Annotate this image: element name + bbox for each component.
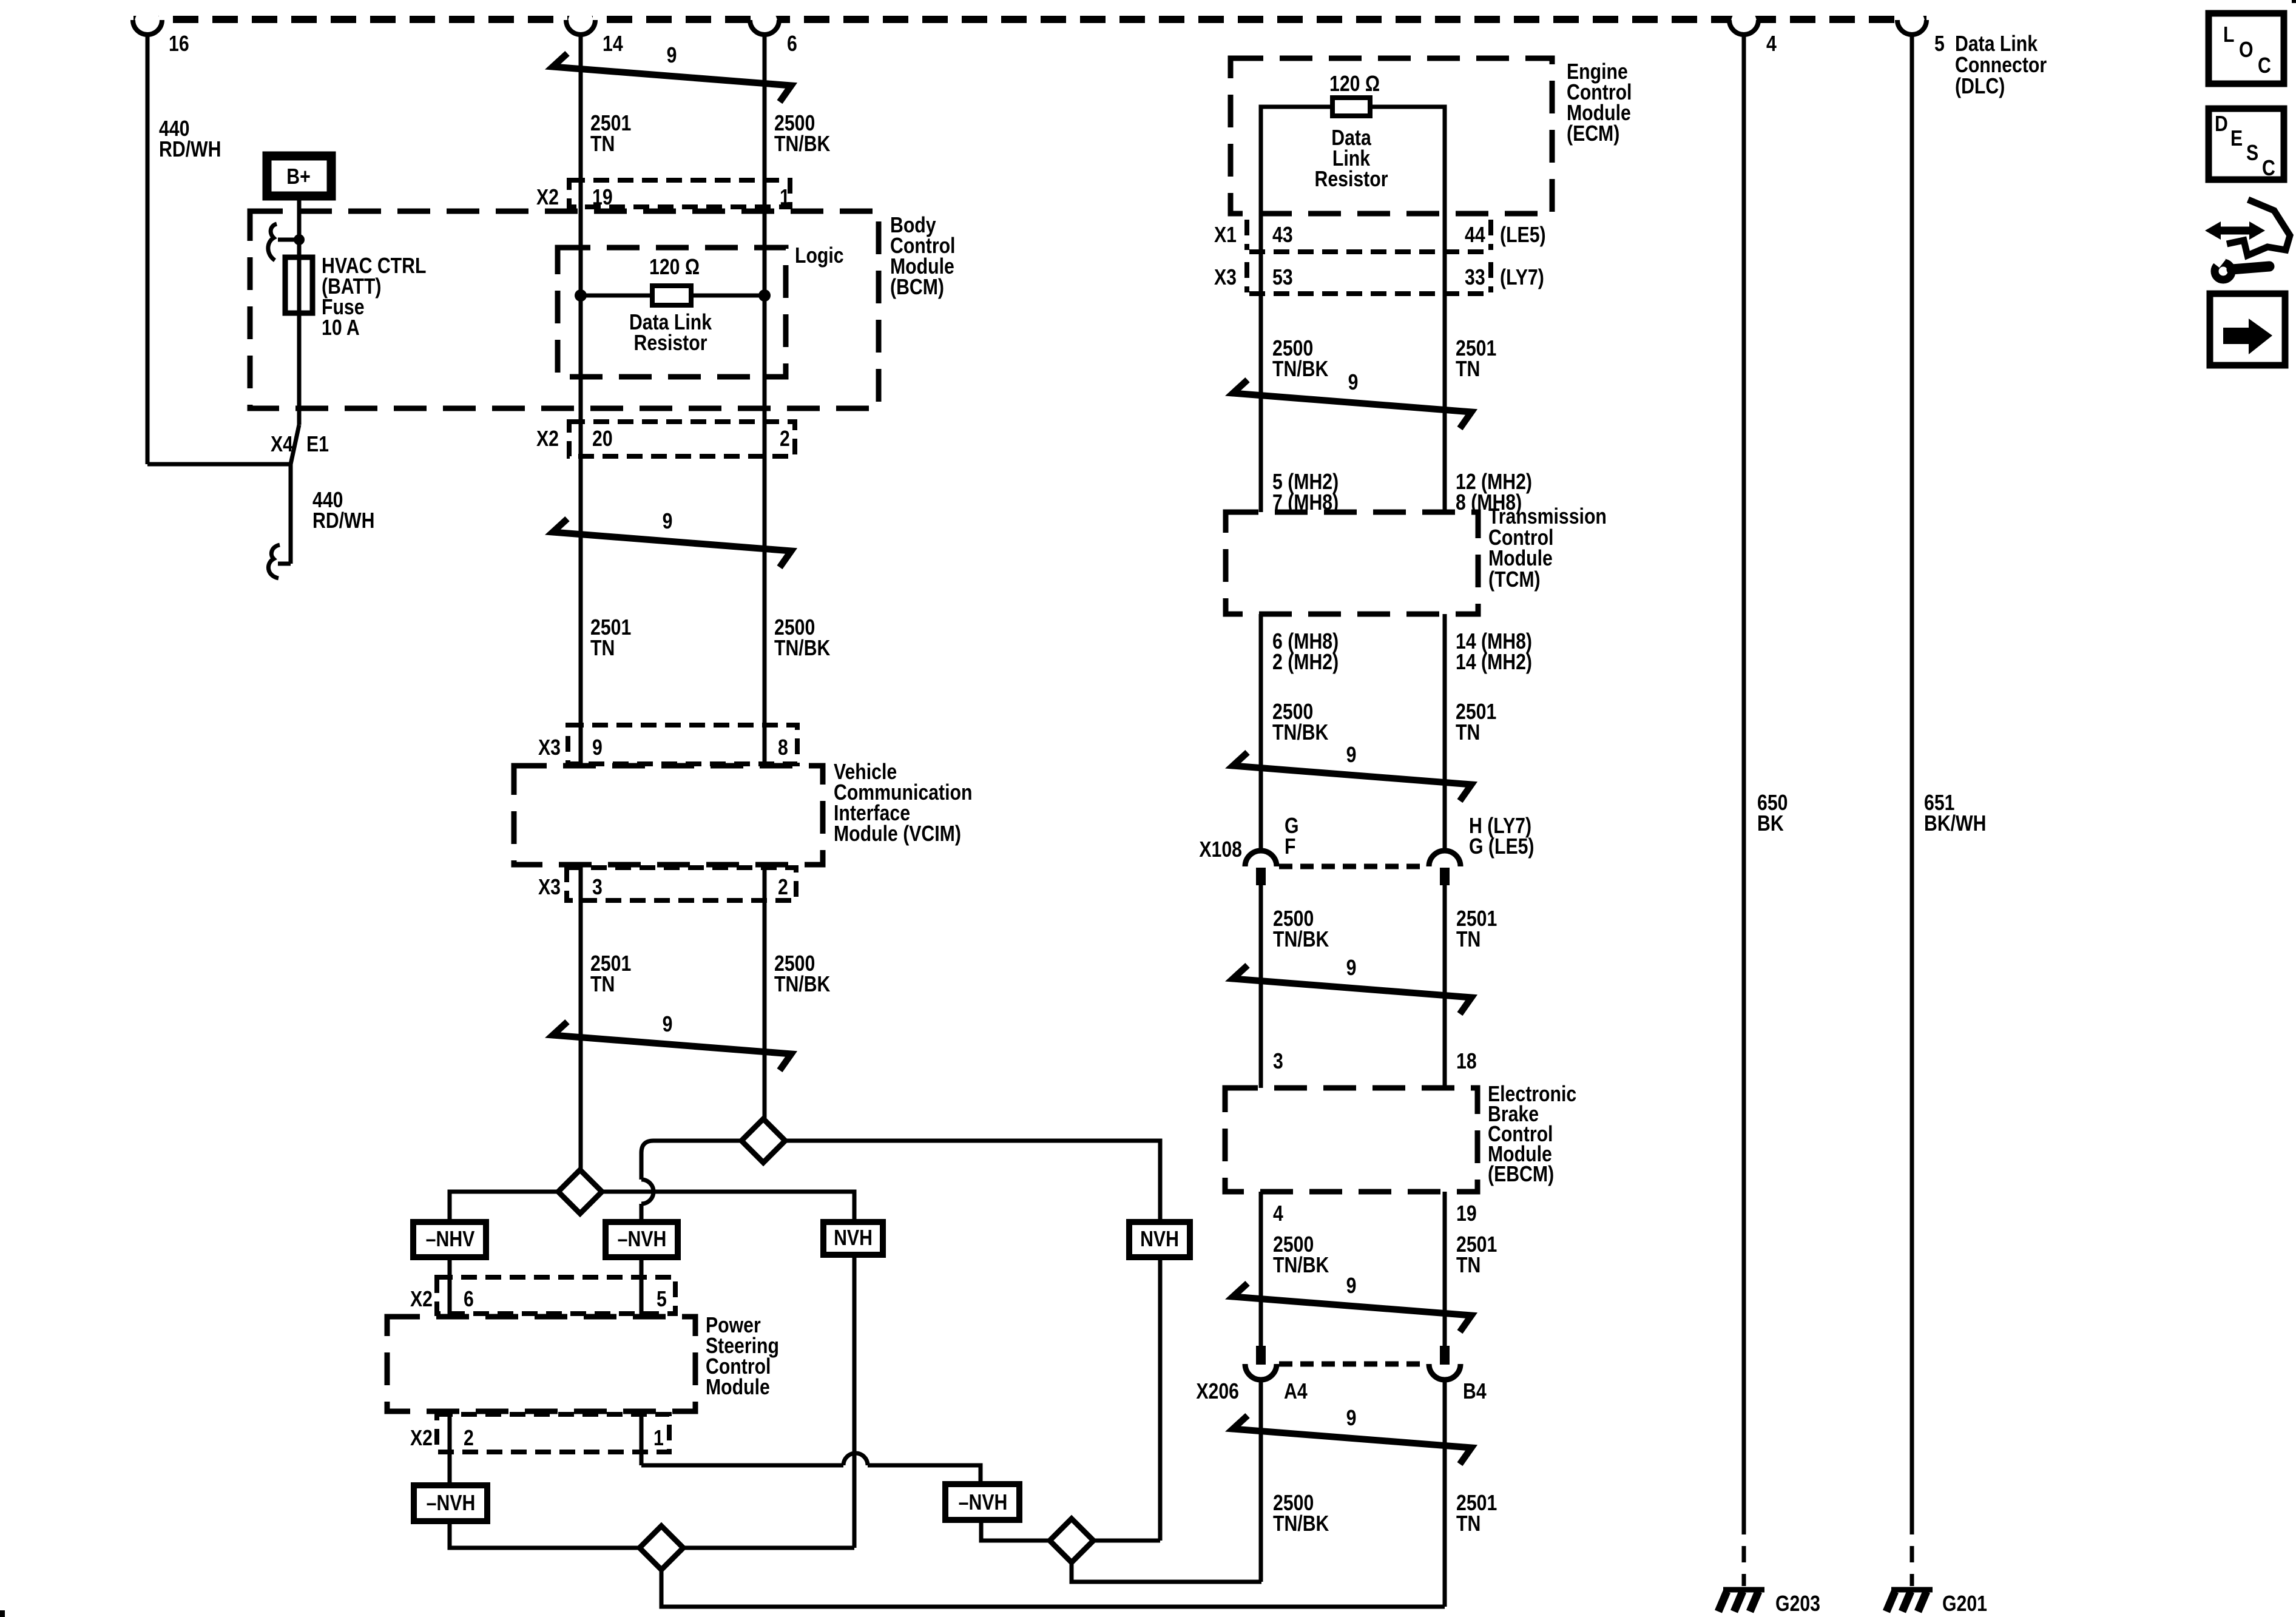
svg-text:TN: TN — [1456, 1254, 1481, 1278]
wire 2501 TN (X108 to EBCM) — [1443, 885, 1447, 1088]
svg-text:2: 2 — [464, 1426, 474, 1451]
svg-text:–NVH: –NVH — [959, 1491, 1008, 1515]
junction dot left (BCM resistor) — [575, 289, 587, 302]
svg-text:33: 33 — [1465, 266, 1485, 290]
wire 2501 TN from DLC pin 14 — [579, 32, 583, 766]
splice diamond (2500 bus) — [741, 1119, 785, 1163]
fuse clip stub — [278, 238, 295, 242]
cable slash 9 (X108 to EBCM) — [1233, 965, 1471, 1014]
junction dot at fuse input — [294, 234, 305, 245]
svg-text:53: 53 — [1272, 266, 1293, 290]
wire PSCM pin 1 down — [640, 1411, 644, 1465]
page mark top right — [2292, 0, 2296, 3]
terminator -NVH box (to PSCM 5) — [606, 1222, 678, 1257]
svg-text:C: C — [2262, 157, 2275, 181]
wire bottom splice to 2501 return — [661, 1570, 1445, 1607]
svg-text:F: F — [1285, 835, 1295, 859]
wire through fuse — [297, 257, 302, 313]
wire -NVH to PSCM pin 5 — [640, 1257, 644, 1317]
svg-text:16: 16 — [169, 32, 189, 56]
wire 2501 TN (X206 down) — [1443, 1380, 1447, 1607]
terminator -NHV box — [413, 1222, 486, 1257]
data link connector (DLC) dashed boundary — [133, 16, 1926, 23]
cable slash 9 (below X206) — [1233, 1416, 1471, 1464]
svg-text:44: 44 — [1465, 223, 1485, 248]
svg-text:E: E — [2230, 127, 2243, 151]
icon forward arrow box — [2210, 294, 2285, 365]
wire 2501 TN (ECM to TCM) — [1443, 214, 1447, 512]
icon double arrow — [2218, 227, 2252, 235]
wire splice arm right (bottom right splice) — [1093, 1539, 1160, 1543]
svg-text:L: L — [2223, 23, 2234, 47]
svg-text:(EBCM): (EBCM) — [1488, 1163, 1554, 1187]
DLC cavity cup pin 16 — [135, 9, 160, 35]
wire hop over horizontal — [641, 1180, 653, 1204]
svg-text:6: 6 — [787, 32, 797, 56]
power steering control module dashed box — [387, 1317, 695, 1411]
svg-text:3: 3 — [1273, 1050, 1283, 1074]
svg-text:NVH: NVH — [834, 1226, 873, 1251]
wire splice arm left (2500 splice) — [641, 1141, 741, 1180]
svg-text:A4: A4 — [1284, 1380, 1308, 1404]
icon LOC box — [2209, 13, 2284, 84]
battery B+ symbol — [267, 156, 331, 196]
svg-text:(LE5): (LE5) — [1500, 223, 1546, 248]
svg-text:TN: TN — [1456, 721, 1480, 745]
inline connector X206 pin left — [1256, 1346, 1266, 1365]
connector row X1/X3 side stubs — [1244, 220, 1249, 250]
svg-text:9: 9 — [1346, 1406, 1357, 1431]
wire 650 BK from DLC pin 4 — [1742, 32, 1746, 1518]
svg-text:TN: TN — [1456, 1512, 1481, 1536]
svg-text:–NVH: –NVH — [427, 1491, 476, 1516]
svg-text:X2: X2 — [536, 427, 559, 451]
svg-text:43: 43 — [1272, 223, 1293, 248]
svg-text:(BCM): (BCM) — [890, 275, 944, 300]
svg-text:TN: TN — [1456, 357, 1480, 382]
svg-text:(LY7): (LY7) — [1500, 266, 1544, 290]
svg-text:TN: TN — [1456, 928, 1481, 952]
svg-text:6: 6 — [464, 1288, 474, 1312]
fuse HVAC CTRL body — [285, 257, 312, 313]
svg-text:TN/BK: TN/BK — [774, 636, 830, 661]
svg-text:1: 1 — [780, 186, 790, 210]
vehicle communication interface module (VCIM) dashed box — [514, 766, 823, 865]
wire PSCM pin 2 to -NVH — [448, 1411, 452, 1485]
cable slash 9 (DLC to BCM) — [553, 53, 791, 102]
inline connector X108 cup right — [1429, 851, 1460, 866]
BCM logic dashed box — [558, 248, 786, 377]
wire splice arm right (2501 splice to NVH) — [602, 1192, 854, 1222]
terminator -NVH box (bottom right) — [945, 1484, 1019, 1520]
svg-text:E1: E1 — [306, 433, 329, 457]
inline connector X108 pin right — [1440, 868, 1450, 885]
data link resistor wire (ECM) — [1261, 107, 1445, 214]
svg-text:9: 9 — [592, 736, 603, 760]
connector row X3 3/2 dotted box — [567, 868, 796, 900]
svg-text:(DLC): (DLC) — [1955, 75, 2005, 99]
inline connector X108 cup left — [1245, 851, 1277, 866]
wire -NHV to PSCM pin 6 — [448, 1257, 452, 1317]
svg-text:5: 5 — [657, 1288, 667, 1312]
svg-text:X2: X2 — [410, 1426, 433, 1451]
svg-text:X1: X1 — [1214, 223, 1237, 248]
svg-text:8: 8 — [778, 736, 788, 760]
wire 2500 TN/BK from DLC pin 6 — [763, 32, 767, 766]
svg-text:120 Ω: 120 Ω — [649, 255, 700, 280]
svg-text:19: 19 — [1456, 1202, 1477, 1226]
svg-text:TN: TN — [590, 132, 615, 157]
svg-text:120 Ω: 120 Ω — [1329, 72, 1380, 96]
cable slash 9 (EBCM to X206) — [1233, 1283, 1471, 1332]
inline connector X206 dashed link — [1279, 1362, 1427, 1367]
DLC cavity cup pin 14 — [568, 9, 593, 35]
svg-text:X2: X2 — [536, 186, 559, 210]
svg-text:Resistor: Resistor — [634, 331, 707, 356]
connector row X2 19/1 dotted box — [569, 180, 790, 207]
wire NVH right vertical to splice — [1158, 1257, 1163, 1541]
svg-text:BK: BK — [1757, 812, 1784, 836]
ground G203 symbol — [1723, 1587, 1764, 1593]
svg-text:2 (MH2): 2 (MH2) — [1272, 650, 1339, 675]
wire 2500 TN/BK (X108 to EBCM) — [1259, 885, 1263, 1088]
svg-text:NVH: NVH — [1140, 1227, 1179, 1252]
svg-text:G201: G201 — [1942, 1592, 1987, 1616]
wire B+ to fuse — [297, 196, 302, 425]
svg-text:19: 19 — [592, 186, 613, 210]
terminator -NVH box (bottom left) — [414, 1485, 487, 1521]
svg-text:X3: X3 — [538, 876, 561, 900]
DLC cavity cup pin 4 — [1731, 9, 1757, 35]
wire hop over NVH wire — [843, 1453, 868, 1465]
svg-text:14 (MH2): 14 (MH2) — [1456, 650, 1532, 675]
svg-text:TN: TN — [590, 973, 615, 997]
svg-text:9: 9 — [1346, 743, 1357, 768]
wire bottom splice to 2500 return — [1072, 1562, 1261, 1582]
svg-text:4: 4 — [1766, 32, 1777, 56]
svg-text:20: 20 — [592, 427, 613, 451]
svg-text:–NHV: –NHV — [426, 1227, 475, 1252]
svg-text:18: 18 — [1456, 1050, 1477, 1074]
body control module (BCM) dashed box — [250, 211, 879, 408]
wire 2500 TN/BK (EBCM to X206) — [1259, 1192, 1263, 1346]
svg-text:S: S — [2246, 141, 2258, 166]
svg-text:Resistor: Resistor — [1315, 167, 1388, 192]
svg-text:9: 9 — [1348, 371, 1359, 395]
svg-text:BK/WH: BK/WH — [1924, 812, 1986, 836]
wire PSCM pin 1 horizontal — [641, 1463, 843, 1468]
splice diamond (bottom right) — [1050, 1519, 1093, 1562]
wire -NVH to bottom splice — [450, 1521, 640, 1548]
wire stub to in-line clip — [278, 562, 291, 566]
wire horizontal to -NVH right — [868, 1465, 981, 1484]
svg-text:9: 9 — [1346, 1274, 1357, 1298]
svg-text:TN/BK: TN/BK — [774, 132, 830, 157]
icon DESC box — [2209, 109, 2284, 180]
svg-text:TN: TN — [590, 636, 615, 661]
svg-text:9: 9 — [663, 510, 673, 534]
svg-text:O: O — [2239, 38, 2254, 62]
electronic brake control module (EBCM) dashed box — [1225, 1088, 1477, 1192]
inline connector X206 pin right — [1440, 1346, 1450, 1365]
ground G201 symbol — [1891, 1587, 1933, 1593]
svg-text:2: 2 — [780, 427, 790, 451]
svg-text:14: 14 — [603, 32, 623, 56]
terminator NVH box (right) — [1129, 1222, 1190, 1257]
svg-text:G203: G203 — [1775, 1592, 1820, 1616]
svg-text:1: 1 — [653, 1426, 664, 1451]
junction dot right (BCM resistor) — [758, 289, 771, 302]
resistor element (ECM data link resistor) — [1332, 98, 1370, 116]
svg-text:TN/BK: TN/BK — [1273, 1512, 1329, 1536]
connector row X2 6/5 dotted box — [437, 1277, 675, 1314]
svg-text:TN/BK: TN/BK — [1272, 721, 1328, 745]
svg-text:X2: X2 — [410, 1288, 433, 1312]
svg-text:4: 4 — [1273, 1202, 1283, 1226]
inline connector X108 pin left — [1256, 868, 1266, 885]
data link resistor wire (BCM) — [581, 294, 765, 298]
svg-text:RD/WH: RD/WH — [312, 509, 374, 533]
icon wrench — [2215, 263, 2232, 280]
wire 2500 TN/BK (TCM to X108) — [1259, 614, 1263, 852]
wire splice arm right (bottom left splice) — [683, 1546, 854, 1550]
resistor element (BCM data link resistor) — [652, 286, 691, 305]
wire 2500 TN/BK (ECM to TCM) — [1259, 214, 1263, 512]
engine control module (ECM) dashed box — [1231, 58, 1552, 214]
wire 651 BK/WH dashed end — [1910, 1518, 1914, 1586]
svg-text:D: D — [2215, 112, 2228, 137]
svg-text:RD/WH: RD/WH — [159, 138, 221, 162]
svg-text:TN/BK: TN/BK — [1273, 1254, 1329, 1278]
wire jog at X4 E1 — [291, 425, 299, 464]
wire 2500 TN/BK (X206 down) — [1259, 1380, 1263, 1582]
DLC cavity cup pin 6 — [752, 9, 777, 35]
svg-text:(ECM): (ECM) — [1567, 122, 1619, 146]
transmission control module (TCM) dashed box — [1226, 512, 1478, 614]
svg-text:Logic: Logic — [795, 244, 844, 268]
wire 2501 TN (EBCM to X206) — [1443, 1192, 1447, 1346]
fuse clip upper — [268, 224, 277, 260]
svg-text:TN/BK: TN/BK — [1272, 357, 1328, 382]
svg-text:G (LE5): G (LE5) — [1469, 835, 1534, 859]
svg-text:X206: X206 — [1196, 1380, 1239, 1404]
icon vehicle outline — [2227, 200, 2290, 255]
wire 440 RD/WH below BCM — [289, 464, 293, 564]
splice diamond (2501 bus) — [558, 1170, 602, 1214]
svg-text:3: 3 — [592, 876, 603, 900]
svg-text:9: 9 — [1346, 956, 1357, 981]
svg-text:TN/BK: TN/BK — [774, 973, 830, 997]
svg-text:5: 5 — [1934, 32, 1945, 56]
svg-text:B+: B+ — [286, 165, 310, 189]
svg-text:–NVH: –NVH — [618, 1227, 667, 1252]
svg-text:X3: X3 — [1214, 266, 1237, 290]
svg-text:X4: X4 — [271, 433, 293, 457]
wire 651 BK/WH from DLC pin 5 — [1910, 32, 1914, 1518]
connector row X1/X3 dashed lines — [1249, 249, 1491, 254]
wire 2501 TN (VCIM to splice) — [579, 865, 583, 1170]
terminator NVH box (left) — [823, 1222, 883, 1255]
wire -NVH right to splice — [981, 1520, 1050, 1541]
cable slash 9 (TCM to X108) — [1233, 752, 1471, 801]
svg-text:Module (VCIM): Module (VCIM) — [834, 822, 961, 846]
wire 2501 TN (TCM to X108) — [1443, 614, 1447, 852]
wire 2500 TN/BK (VCIM to splice) — [763, 865, 767, 1119]
cable slash 9 (BCM to VCIM) — [553, 519, 791, 567]
page mark bottom left — [0, 1610, 5, 1617]
svg-text:C: C — [2258, 54, 2271, 78]
inline connector X206 cup left — [1245, 1364, 1277, 1380]
connector row X2 2/1 dotted box — [437, 1414, 669, 1452]
connector row X2 20/2 dotted box — [569, 422, 795, 456]
wire 440 RD/WH from DLC pin 16 — [146, 32, 150, 464]
svg-text:X108: X108 — [1199, 838, 1242, 862]
wire splice arm left (2501 splice to -NHV) — [450, 1192, 558, 1222]
svg-text:10 A: 10 A — [322, 316, 360, 340]
DLC cavity cup pin 5 — [1899, 9, 1925, 35]
wire 650 BK dashed end — [1742, 1518, 1746, 1586]
svg-text:Module: Module — [706, 1376, 770, 1400]
splice diamond (bottom left) — [640, 1526, 683, 1570]
svg-text:B4: B4 — [1463, 1380, 1487, 1404]
wire NVH left vertical to splice — [853, 1255, 857, 1548]
inline connector X108 dashed link — [1279, 864, 1427, 869]
connector row X3 9/8 dotted box — [568, 725, 797, 764]
cable slash 9 (ECM to TCM) — [1233, 380, 1471, 428]
in-line clip symbol — [268, 545, 280, 578]
svg-text:TN/BK: TN/BK — [1273, 928, 1329, 952]
svg-text:9: 9 — [663, 1013, 673, 1037]
wire to -NVH terminator — [640, 1204, 644, 1222]
svg-text:2: 2 — [778, 876, 788, 900]
svg-text:9: 9 — [667, 44, 677, 68]
wire splice arm right (2500 splice to NVH) — [785, 1141, 1160, 1222]
wire horizontal to BCM X4-E1 — [147, 462, 291, 467]
svg-text:X3: X3 — [538, 736, 561, 760]
inline connector X206 cup right — [1429, 1364, 1460, 1380]
cable slash 9 (VCIM to splices) — [553, 1022, 791, 1070]
svg-text:(TCM): (TCM) — [1488, 568, 1541, 592]
